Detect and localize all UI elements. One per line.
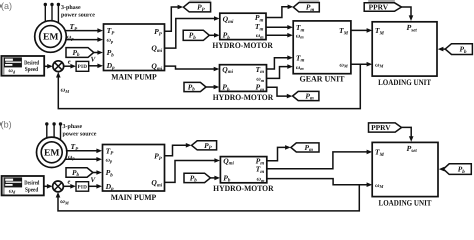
tag PPRV (a) xyxy=(364,2,401,11)
svg-text:EM: EM xyxy=(43,32,58,43)
tag PP (b) xyxy=(192,141,217,151)
3-phase power source (b) xyxy=(45,122,97,139)
wire wM gear to loading (a) xyxy=(351,62,372,67)
tag Pb hydro-motor1 (a) xyxy=(183,30,209,41)
wire Pb tag to hydro-motor1 (a) xyxy=(209,33,219,38)
block Desired Speed (a) xyxy=(1,56,44,76)
wire sum to PID (b) xyxy=(64,184,76,189)
block LOADING UNIT (a) xyxy=(372,22,437,87)
label V (b) xyxy=(91,176,97,184)
wire Pb tag to loading (b) xyxy=(439,167,445,172)
tag Pb hydro-motor2 (a) xyxy=(184,82,206,92)
wire Qmi pump to hydro-motor (b) xyxy=(165,158,221,182)
sum junction (b) xyxy=(53,181,64,192)
block PID (b) xyxy=(76,182,89,192)
svg-text:HYDRO-MOTOR: HYDRO-MOTOR xyxy=(212,41,273,50)
feedback wire wM (a) xyxy=(56,64,360,108)
wire wm hydro-motor to loading (b) xyxy=(267,179,372,187)
wire Pb tag to hydro-motor2 (a) xyxy=(206,85,219,90)
wire desired speed to sum (b) xyxy=(44,184,53,189)
svg-text:ωm: ωm xyxy=(296,33,304,39)
svg-text:ωp: ωp xyxy=(106,157,113,163)
tag Pb loading (b) xyxy=(443,164,471,175)
block Desired Speed (b) xyxy=(2,176,44,195)
block LOADING UNIT (b) xyxy=(372,142,438,207)
block MAIN PUMP (b) xyxy=(103,145,165,203)
tag PP (a) xyxy=(183,2,210,12)
svg-text:ωp: ωp xyxy=(107,38,114,44)
svg-text:GEAR UNIT: GEAR UNIT xyxy=(300,75,345,84)
motor EM (b) xyxy=(37,137,67,167)
label e (b) xyxy=(68,179,71,186)
svg-text:LOADING UNIT: LOADING UNIT xyxy=(378,78,431,87)
tag PPRV (b) xyxy=(369,123,402,132)
svg-text:EM: EM xyxy=(44,147,59,158)
svg-text:MAIN PUMP: MAIN PUMP xyxy=(111,193,157,202)
svg-text:ωp: ωp xyxy=(68,154,75,160)
wire Pm hydro-motor1 to tag (a) xyxy=(266,5,293,18)
tag Pm 2 (a) xyxy=(293,91,319,101)
block HYDRO-MOTOR (b) xyxy=(213,156,274,193)
tag Pb pump input (a) xyxy=(66,48,94,59)
svg-text:Speed: Speed xyxy=(25,66,39,73)
wire TP motor to pump (a) xyxy=(65,22,104,33)
svg-text:PPRV: PPRV xyxy=(371,123,391,132)
wire Pb tag to loading (a) xyxy=(438,47,445,52)
svg-text:ωm: ωm xyxy=(256,33,264,39)
wire TM gear to loading (a) xyxy=(351,28,372,33)
wire desired speed to sum (a) xyxy=(44,64,53,69)
scan artifact top edge xyxy=(190,0,395,2)
tag Pb loading (a) xyxy=(445,44,472,55)
svg-text:ωM: ωM xyxy=(340,62,349,68)
label V (a) xyxy=(91,56,97,64)
wire PP pump to tag (b) xyxy=(165,143,192,156)
svg-text:3-phase: 3-phase xyxy=(61,4,81,11)
tag Pm 1 (a) xyxy=(293,3,319,13)
wire wm hydro-motor1 to gear (a) xyxy=(266,33,293,38)
svg-text:ωM: ωM xyxy=(375,62,384,68)
wire PP pump to tag (a) xyxy=(165,5,184,32)
block GEAR UNIT (a) xyxy=(293,21,351,84)
svg-text:LOADING UNIT: LOADING UNIT xyxy=(379,199,432,208)
label e (a) xyxy=(68,58,71,65)
wire PID to pump (b) xyxy=(89,184,102,189)
wire Tm hydro-motor2 to gear (a) xyxy=(267,55,293,69)
block HYDRO-MOTOR 1 (a) xyxy=(212,13,273,50)
wire Qmi pump to hydro-motor2 (a) xyxy=(165,66,220,71)
svg-text:e: e xyxy=(68,179,71,186)
block MAIN PUMP (a) xyxy=(104,24,165,82)
svg-text:ωM: ωM xyxy=(375,183,384,189)
wire wm hydro-motor2 to gear (a) xyxy=(267,64,293,78)
svg-text:ωd: ωd xyxy=(9,188,16,194)
block HYDRO-MOTOR 2 (a) xyxy=(213,65,274,102)
wire Pb tag to hydro-motor (b) xyxy=(210,176,220,181)
panel label (b) xyxy=(0,120,12,130)
svg-text:PID: PID xyxy=(78,64,88,70)
svg-text:(a): (a) xyxy=(1,1,12,11)
svg-text:3-phase: 3-phase xyxy=(63,123,83,130)
sum junction (a) xyxy=(53,61,64,72)
svg-text:HYDRO-MOTOR: HYDRO-MOTOR xyxy=(213,184,274,193)
wire wp motor to pump (a) xyxy=(65,35,103,42)
tag Pb pump input (b) xyxy=(66,168,93,178)
wire wp motor to pump (b) xyxy=(65,154,102,161)
svg-text:e: e xyxy=(68,58,71,65)
svg-text:ωp: ωp xyxy=(67,35,74,41)
wire Pb tag to pump (b) xyxy=(93,170,102,175)
svg-text:Speed: Speed xyxy=(25,186,39,193)
wire PID to pump (a) xyxy=(89,64,103,69)
wire Qmi pump to hydro-motor1 (a) xyxy=(165,16,220,48)
block PID (a) xyxy=(76,61,89,71)
svg-text:HYDRO-MOTOR: HYDRO-MOTOR xyxy=(213,93,274,102)
svg-text:power source: power source xyxy=(63,132,97,138)
svg-text:PPRV: PPRV xyxy=(369,2,389,11)
wire PPRV to loading (b) xyxy=(402,127,414,141)
svg-text:ωm: ωm xyxy=(296,65,304,71)
motor EM (a) xyxy=(35,21,67,53)
panel label (a) xyxy=(0,1,12,11)
wire Pb tag to pump (a) xyxy=(94,50,103,55)
tag Pb hydro-motor (b) xyxy=(184,173,210,183)
svg-text:MAIN PUMP: MAIN PUMP xyxy=(111,73,157,82)
svg-text:(b): (b) xyxy=(1,120,12,130)
wire PPRV to loading (a) xyxy=(402,7,414,21)
wire Pm hydro-motor to tag (b) xyxy=(267,145,291,161)
wire sum to PID (a) xyxy=(64,64,76,69)
tag Pm (b) xyxy=(291,143,319,153)
wire Tm hydro-motor to loading (b) xyxy=(267,150,372,169)
svg-text:power source: power source xyxy=(61,12,95,18)
feedback wire wM (b) xyxy=(56,185,360,211)
svg-text:ωd: ωd xyxy=(9,68,16,74)
wire Tm hydro-motor1 to gear (a) xyxy=(266,25,293,30)
wire TP motor to pump (b) xyxy=(66,142,102,153)
svg-text:PID: PID xyxy=(78,184,88,190)
wire Pm hydro-motor2 to tag (a) xyxy=(267,87,293,98)
3-phase power source (a) xyxy=(44,3,96,23)
svg-text:ωm: ωm xyxy=(257,177,265,183)
